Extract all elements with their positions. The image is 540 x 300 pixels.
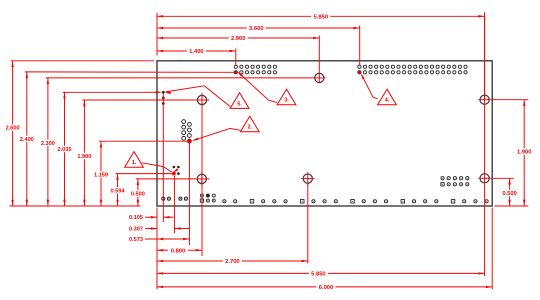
crosshair bottom-middle hole <box>301 178 314 180</box>
dim 0.594 left <box>117 174 119 188</box>
crosshair left-lower hole <box>195 178 210 180</box>
svg-text:0.500: 0.500 <box>131 191 145 197</box>
mounting hole bottom-right <box>480 174 489 183</box>
svg-text:0.500: 0.500 <box>502 191 517 197</box>
ext line right bottom hole <box>491 177 514 179</box>
ext line board bottom right <box>495 205 529 207</box>
connector J-right 20x2 header pins <box>358 65 467 74</box>
dim 5.850 bottom <box>157 272 309 274</box>
dim 0.500 right <box>509 178 511 190</box>
svg-text:5.: 5. <box>237 101 242 107</box>
bottom-right 5x2 cluster <box>441 177 469 186</box>
callout triangle 3 <box>277 89 296 105</box>
dim 1.900 right <box>523 100 525 149</box>
svg-text:2.600: 2.600 <box>6 126 20 132</box>
dim 1.159 left <box>100 141 102 171</box>
svg-text:5.850: 5.850 <box>311 272 326 278</box>
svg-text:2.900: 2.900 <box>231 36 246 42</box>
dim 2.900 top <box>157 37 229 39</box>
leader 4 <box>373 97 378 99</box>
feature line 2.400 to pin1 left connector <box>25 71 234 73</box>
callout triangle 2 <box>240 116 259 132</box>
svg-text:1.400: 1.400 <box>189 49 204 55</box>
svg-text:2.: 2. <box>248 125 253 131</box>
ext line 0.573 column <box>188 143 190 245</box>
board outline (PCB edge 6.000 x 2.600) <box>157 61 492 206</box>
svg-text:2.035: 2.035 <box>58 147 72 153</box>
marker 2x2 cluster pin (0.307,0.594) <box>172 172 175 175</box>
svg-text:2.300: 2.300 <box>41 141 55 147</box>
marker pin1 left connector <box>234 71 237 74</box>
marker staggered cluster pin (0.573,1.159) <box>188 139 192 143</box>
feature line 0.500 to left-lower hole <box>136 178 195 180</box>
mounting hole top-middle <box>315 73 324 82</box>
ext line right top hole <box>491 99 529 101</box>
dim 2.700 bottom <box>157 260 223 262</box>
feature line 0.594 to 2x2 pin <box>116 173 172 175</box>
mounting hole bottom-middle <box>303 174 312 183</box>
callout triangle 5 <box>230 93 249 109</box>
feature line 1.159 to staggered pin <box>99 140 187 142</box>
svg-text:3.: 3. <box>284 98 289 104</box>
svg-text:1.159: 1.159 <box>94 173 108 179</box>
feature line 2.035 to top hole of 3-dot column <box>63 91 161 93</box>
dim 2.035 left <box>64 92 66 146</box>
dim 5.850 top <box>157 15 311 17</box>
feature line 1.900 to left-upper hole <box>82 99 195 101</box>
dim 3.600 top <box>157 27 247 29</box>
crosshair top-middle hole <box>313 77 326 79</box>
svg-text:0.594: 0.594 <box>111 188 126 194</box>
3-hole column left edge <box>162 91 165 105</box>
mounting hole left-lower <box>197 174 206 183</box>
svg-text:1.: 1. <box>132 160 137 166</box>
leader 2 <box>230 128 240 130</box>
svg-text:6.000: 6.000 <box>319 285 334 291</box>
feature line 2.300 to top-middle hole <box>46 77 313 79</box>
dim 1.400 top <box>157 50 187 52</box>
ext line board left edge down <box>156 208 158 290</box>
svg-text:4.: 4. <box>385 98 390 104</box>
crosshair bottom-right hole <box>478 177 491 179</box>
crosshair top-right hole <box>478 99 491 101</box>
2x2 pad cluster <box>173 166 180 175</box>
dim 2.400 left <box>26 72 28 136</box>
ext line 5.850 column (right holes) <box>484 14 486 277</box>
dim 2.300 left <box>47 78 49 140</box>
svg-text:2.700: 2.700 <box>225 259 240 265</box>
svg-text:2.400: 2.400 <box>20 137 34 143</box>
svg-text:1.900: 1.900 <box>517 150 532 156</box>
extension lines top dims <box>156 13 158 56</box>
ext line 0.800 column <box>201 93 203 256</box>
dim 6.000 bottom <box>157 286 317 288</box>
svg-text:1.900: 1.900 <box>77 154 91 160</box>
bottom edge pad row <box>162 194 488 203</box>
leader 1 <box>142 163 164 167</box>
leader 3 <box>269 100 278 102</box>
dim 0.500 left <box>137 179 139 190</box>
svg-text:3.600: 3.600 <box>249 26 264 32</box>
ext line 2.700 column <box>307 183 309 264</box>
svg-text:5.850: 5.850 <box>314 14 329 20</box>
dim 1.900 left <box>83 100 85 153</box>
mounting hole left-upper <box>197 95 206 104</box>
crosshair left-upper hole <box>195 99 209 101</box>
ext line 0.307 column <box>173 176 175 234</box>
baseline bottom-left <box>9 205 140 207</box>
marker pin1 right connector <box>358 71 361 74</box>
mounting hole top-right <box>480 95 489 104</box>
callout triangle 4 <box>378 89 397 105</box>
ext line board right edge down <box>491 208 493 290</box>
callout triangle 1 <box>125 152 144 168</box>
ext line 0.105 column <box>162 94 164 223</box>
feature line 2.600 (board top) <box>11 60 155 62</box>
svg-text:0.800: 0.800 <box>171 248 186 254</box>
dim 2.600 left <box>12 61 14 125</box>
svg-text:0.573: 0.573 <box>129 237 143 243</box>
leader 5 <box>204 86 230 107</box>
dim 0.800 bottom <box>157 249 168 251</box>
connector J-left 8x2 header pins <box>234 65 276 74</box>
svg-text:0.307: 0.307 <box>129 227 143 233</box>
staggered 8-pin cluster <box>182 120 192 143</box>
svg-text:0.105: 0.105 <box>129 215 143 221</box>
